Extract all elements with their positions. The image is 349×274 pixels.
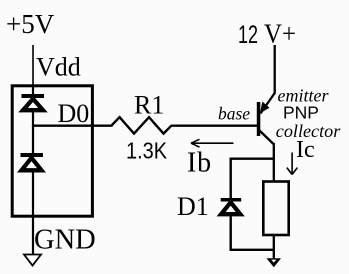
transistor Q1 collector segment xyxy=(260,131,275,145)
svg-text:Ib: Ib xyxy=(187,148,212,179)
svg-text:PNP: PNP xyxy=(283,102,319,122)
svg-text:base: base xyxy=(218,104,250,124)
wire 12V+ down to emitter xyxy=(274,45,276,94)
svg-text:Ic: Ic xyxy=(296,137,315,163)
transistor Q1 emitter arrowhead (PNP, points to base) xyxy=(260,102,270,114)
transistor Q1 emitter segment xyxy=(261,93,275,114)
svg-text:12: 12 xyxy=(238,21,258,49)
svg-text:+5V: +5V xyxy=(6,9,55,39)
wire diode to node D0 xyxy=(32,112,34,127)
svg-text:Vdd: Vdd xyxy=(36,53,81,82)
svg-text:D1: D1 xyxy=(177,192,209,221)
wire Vdd to diode D_a xyxy=(32,85,34,95)
svg-text:V+: V+ xyxy=(264,19,296,49)
svg-text:D0: D0 xyxy=(58,99,90,128)
wire diode to GND xyxy=(32,172,34,254)
svg-text:1.3K: 1.3K xyxy=(126,138,168,164)
current arrow Ib xyxy=(192,142,234,144)
wire collector junction to D1 branch (top) xyxy=(231,157,274,159)
resistor R1 zigzag xyxy=(112,117,172,133)
protection network box xyxy=(12,86,92,216)
wire resistor to base xyxy=(171,124,257,126)
svg-text:R1: R1 xyxy=(134,90,164,119)
diode D1 cathode bar xyxy=(221,198,242,202)
wire node D0 down to diode lower clamp xyxy=(32,125,34,154)
wire +5V down to box xyxy=(32,45,34,85)
transistor Q1 base bar xyxy=(257,102,261,136)
wire D1 branch vertical (top) xyxy=(229,158,231,200)
ground arrow (filled, right) xyxy=(267,258,282,267)
ground arrow (open, left) xyxy=(24,255,41,266)
wire node D0 to resistor R1 xyxy=(32,124,113,126)
wire D1 to bottom rail xyxy=(229,215,231,251)
diode upper clamp (triangle) xyxy=(23,99,43,110)
diode lower clamp (triangle) xyxy=(22,158,42,171)
svg-text:GND: GND xyxy=(34,225,96,256)
diode D1 triangle xyxy=(221,202,240,214)
load resistor rectangle xyxy=(263,182,288,236)
current arrow Ic xyxy=(291,153,293,174)
diode upper clamp (cathode bar) xyxy=(22,94,45,98)
bottom rail wire xyxy=(230,249,274,251)
wire load to ground xyxy=(273,235,275,259)
wire collector down to load xyxy=(273,143,275,181)
diode lower clamp (cathode bar) xyxy=(21,153,44,157)
